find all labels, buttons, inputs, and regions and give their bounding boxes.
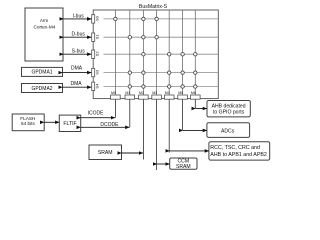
master port M4 bbox=[164, 91, 174, 99]
box GPDMA2 bbox=[22, 84, 63, 93]
node S3-M5 bbox=[181, 71, 184, 74]
node S4-M6 bbox=[194, 85, 197, 88]
wire M3 drop to CCM SRAM row bbox=[156, 99, 158, 170]
svg-text:DCODE: DCODE bbox=[100, 122, 119, 128]
wire M0 drop to ICODE bbox=[114, 99, 116, 118]
slave port S3 bbox=[92, 68, 100, 76]
svg-text:S3: S3 bbox=[95, 69, 100, 75]
svg-text:S4: S4 bbox=[95, 83, 100, 89]
node S1-M2 bbox=[142, 36, 145, 39]
svg-text:GPDMA1: GPDMA1 bbox=[31, 70, 52, 76]
svg-text:DMA: DMA bbox=[71, 81, 83, 87]
svg-text:FLTIF: FLTIF bbox=[63, 121, 76, 127]
box SRAM bbox=[89, 145, 122, 160]
svg-text:S-bus: S-bus bbox=[72, 49, 86, 55]
node S3-M2 bbox=[142, 71, 145, 74]
svg-text:ADCs: ADCs bbox=[221, 129, 235, 135]
svg-text:M1: M1 bbox=[125, 91, 130, 95]
matrix column wire M3 bbox=[156, 10, 158, 99]
node S1-M1 bbox=[128, 36, 131, 39]
svg-text:D-bus: D-bus bbox=[72, 32, 86, 38]
matrix column wire M0 bbox=[114, 10, 116, 99]
box CCM SRAM bbox=[170, 158, 197, 170]
node S4-M1 bbox=[128, 85, 131, 88]
svg-text:DMA: DMA bbox=[71, 66, 83, 72]
matrix row wire S2 bbox=[104, 53, 219, 55]
svg-text:ICODE: ICODE bbox=[88, 111, 105, 117]
svg-text:RCC, TSC, CRC and: RCC, TSC, CRC and bbox=[210, 145, 260, 151]
node S1-M3 bbox=[155, 36, 158, 39]
svg-text:M4: M4 bbox=[165, 91, 170, 95]
wire M3 column to CCM SRAM bbox=[157, 163, 170, 165]
svg-text:S2: S2 bbox=[95, 51, 100, 57]
wire M6 column to GPIO box bbox=[196, 108, 207, 110]
svg-text:S1: S1 bbox=[95, 34, 100, 40]
wire S-bus (CPU to matrix S2) bbox=[64, 49, 92, 55]
box FLTIF bbox=[59, 115, 80, 131]
node S2-M2 bbox=[142, 53, 145, 56]
svg-text:M3: M3 bbox=[152, 91, 157, 95]
wire SRAM to M2 column bbox=[122, 152, 144, 154]
wire DMA (GPDMA2 to matrix S4) bbox=[63, 81, 92, 87]
svg-text:GPDMA2: GPDMA2 bbox=[31, 86, 52, 92]
svg-text:Arm: Arm bbox=[40, 18, 49, 23]
node S4-M4 bbox=[168, 85, 171, 88]
box ADCs bbox=[207, 123, 250, 138]
wire M1 drop to DCODE bbox=[129, 99, 131, 128]
master port M5 bbox=[178, 91, 188, 99]
node S2-M4 bbox=[168, 53, 171, 56]
svg-text:I-bus: I-bus bbox=[73, 13, 85, 19]
box GPDMA1 bbox=[22, 67, 63, 76]
wire D-bus (CPU to matrix S1) bbox=[64, 32, 92, 38]
svg-text:S0: S0 bbox=[95, 15, 100, 21]
svg-text:M0: M0 bbox=[111, 91, 116, 95]
matrix column wire M6 bbox=[194, 10, 196, 99]
svg-text:SRAM: SRAM bbox=[176, 164, 191, 170]
matrix column wire M5 bbox=[182, 10, 184, 99]
slave port S2 bbox=[92, 50, 100, 58]
wire M2 drop to SRAM row bbox=[142, 99, 144, 160]
box FLASH 64 bits bbox=[12, 114, 44, 131]
svg-text:SRAM: SRAM bbox=[98, 150, 113, 156]
wire DCODE (FLTIF to M1 column) bbox=[81, 122, 130, 128]
wire M6 drop to GPIO row bbox=[194, 99, 196, 109]
matrix column wire M4 bbox=[168, 10, 170, 99]
wire I-bus (CPU to matrix S0) bbox=[64, 13, 92, 19]
matrix row wire S1 bbox=[104, 36, 219, 38]
svg-text:BusMatrix-S: BusMatrix-S bbox=[139, 4, 168, 10]
node S2-M6 bbox=[194, 53, 197, 56]
svg-text:M2: M2 bbox=[139, 91, 144, 95]
master port M1 bbox=[125, 91, 135, 99]
node S0-M3 bbox=[155, 17, 158, 20]
wire DMA (GPDMA1 to matrix S3) bbox=[63, 66, 92, 73]
master port M3 bbox=[152, 91, 162, 99]
node S3-M1 bbox=[128, 71, 131, 74]
BusMatrix-S outer box and title bbox=[93, 4, 218, 99]
master port M6 bbox=[191, 91, 201, 99]
slave port S1 bbox=[92, 33, 100, 41]
node S0-M2 bbox=[142, 17, 145, 20]
node S4-M2 bbox=[142, 85, 145, 88]
node S3-M4 bbox=[168, 71, 171, 74]
wire M4 column to RCC box bbox=[170, 150, 209, 152]
svg-text:AHB to APB1 and APB2: AHB to APB1 and APB2 bbox=[210, 152, 267, 158]
matrix column wire M2 bbox=[142, 10, 144, 99]
box AHB dedicated to GPIO ports bbox=[207, 101, 250, 117]
master port M2 bbox=[139, 91, 149, 99]
master port M0 (rect + label) bbox=[111, 91, 121, 99]
slave port S4 bbox=[92, 82, 100, 90]
node S2-M5 bbox=[181, 53, 184, 56]
matrix column wire M1 bbox=[129, 10, 131, 99]
slave port S0 (rect, entry arrow, label) bbox=[88, 15, 100, 23]
wire ICODE (FLTIF to M0 column) bbox=[81, 111, 115, 118]
node S3-M6 bbox=[194, 71, 197, 74]
svg-text:M5: M5 bbox=[178, 91, 183, 95]
CPU box U1: Arm Cortex-M4 bbox=[25, 8, 63, 61]
node S4-M5 bbox=[181, 85, 184, 88]
wire M5 drop to ADCs row bbox=[182, 99, 184, 131]
svg-text:M6: M6 bbox=[191, 91, 196, 95]
matrix row wire S3 bbox=[104, 72, 219, 74]
box RCC TSC CRC AHB-APB bridges bbox=[209, 142, 270, 160]
node S0-M0 bbox=[114, 17, 117, 20]
wire M5 column to ADCs box bbox=[183, 129, 207, 131]
matrix row wire S0 bbox=[104, 18, 219, 20]
matrix row wire S4 bbox=[104, 86, 219, 88]
svg-text:64 bits: 64 bits bbox=[21, 121, 35, 126]
svg-text:to GPIO ports: to GPIO ports bbox=[213, 109, 245, 115]
wire FLASH-FLTIF bbox=[44, 121, 59, 123]
wire M4 drop to RCC row bbox=[168, 99, 170, 153]
svg-text:Cortex-M4: Cortex-M4 bbox=[33, 25, 55, 30]
